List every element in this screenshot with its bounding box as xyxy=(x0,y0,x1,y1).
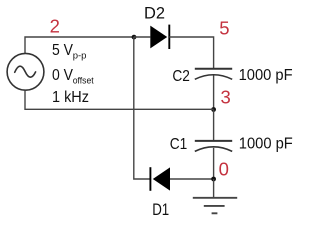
wire: junction to D2 anode xyxy=(134,36,151,38)
svg-text:5 V: 5 V xyxy=(52,42,73,59)
junction node 2 dot xyxy=(132,35,137,40)
ac source V1 xyxy=(7,53,44,90)
ground xyxy=(193,198,237,214)
wire: source top to node-2 junction xyxy=(25,37,134,54)
svg-text:1000 pF: 1000 pF xyxy=(239,136,293,153)
svg-text:D2: D2 xyxy=(144,5,165,23)
svg-text:C1: C1 xyxy=(170,136,188,153)
wire: D2 cathode to top-right corner down to C2 xyxy=(169,37,213,68)
svg-text:1000 pF: 1000 pF xyxy=(239,67,293,84)
svg-text:5: 5 xyxy=(219,18,229,39)
svg-text:p-p: p-p xyxy=(73,50,87,61)
diode D2 xyxy=(150,25,169,49)
svg-text:2: 2 xyxy=(50,16,60,37)
wire: C1 bottom to node 0 junction xyxy=(213,148,215,179)
junction node 0 dot xyxy=(211,177,216,182)
svg-text:offset: offset xyxy=(73,75,94,86)
svg-text:3: 3 xyxy=(221,86,231,107)
diode D1 xyxy=(150,167,170,191)
wire: C2 bottom to node 3 xyxy=(213,76,215,110)
capacitor C2 xyxy=(195,69,232,80)
wire: source bottom to node 3 xyxy=(25,90,214,109)
wire: D1 to node 0 junction xyxy=(170,178,214,180)
wire: node 2 junction down to D1 row xyxy=(134,37,151,179)
svg-text:0: 0 xyxy=(219,158,229,179)
svg-text:D1: D1 xyxy=(152,201,169,219)
wire: node 0 to ground xyxy=(213,179,215,198)
svg-text:0 V: 0 V xyxy=(52,67,73,84)
junction node 3 dot xyxy=(211,107,216,112)
svg-text:C2: C2 xyxy=(172,68,190,85)
capacitor C1 xyxy=(195,141,232,152)
wire: node 3 to C1 xyxy=(213,110,215,141)
svg-text:1 kHz: 1 kHz xyxy=(52,89,89,106)
